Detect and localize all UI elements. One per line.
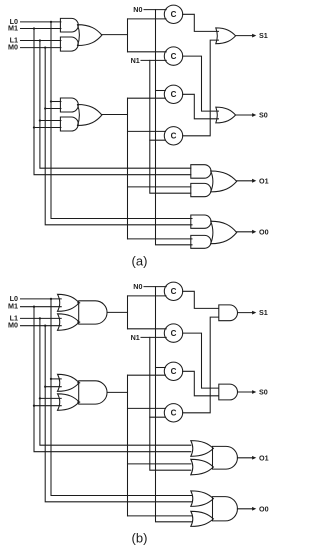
input label N1 (a) [131, 56, 140, 65]
gate cluster2-out (b) [79, 381, 107, 404]
input label M1 (a) [8, 23, 18, 32]
svg-text:C: C [171, 367, 177, 376]
gate S1 output (a) [216, 28, 236, 44]
svg-text:M0: M0 [8, 43, 18, 52]
gate cluster1-B (a) [60, 37, 78, 51]
input label N0 (b) [133, 282, 142, 291]
svg-text:S0: S0 [259, 111, 268, 120]
gate O0-B (b) [191, 511, 214, 526]
wire+arrow S1 (b) [238, 311, 257, 315]
svg-text:M0: M0 [8, 321, 18, 330]
gate O1-A (b) [191, 441, 214, 457]
gate O0-B (a) [191, 235, 211, 248]
wire L1 vertical branch (b) [39, 317, 191, 445]
input label L1 (b) [10, 313, 18, 322]
wire C3 output (a) [183, 94, 219, 119]
input label L0 (b) [10, 294, 18, 303]
wire cluster1 output to splitter (b) [107, 311, 128, 313]
C-element U1b [164, 282, 182, 300]
wire N1 vertical branch (b) [150, 337, 191, 470]
wire C1 output (b) [183, 291, 219, 308]
wire splitter2 bottom branch to O0 gate (b) [128, 515, 193, 517]
gate cluster1-A (b) [58, 294, 80, 311]
wire splitter2 branch to C4 (b) [128, 407, 166, 409]
wire splitter1 bottom branch to C2 (b) [128, 328, 167, 330]
svg-text:O0: O0 [259, 504, 269, 513]
output label O0 (b) [259, 504, 269, 513]
svg-text:C: C [171, 90, 177, 99]
wire C3 output (b) [183, 371, 219, 396]
wire N0 vertical branch (b) [156, 287, 193, 522]
wire M0 vertical branch (a) [44, 46, 192, 224]
wire+arrow O0 (b) [237, 507, 256, 511]
wire splitter2 branch to C4 (a) [128, 130, 166, 132]
gate S0 output (b) [219, 384, 238, 400]
wire+arrow S0 (b) [238, 390, 257, 394]
wire+arrow S1 (a) [236, 34, 257, 38]
gate cluster2-A (b) [58, 374, 80, 391]
wire splitter2 top branch to C3 (b) [128, 374, 166, 376]
wire splitter2 stub to O1 gate (a) [128, 186, 191, 188]
wire+arrow O0 (a) [237, 230, 257, 234]
wire N1 to C2 (b) [141, 336, 166, 338]
svg-text:N0: N0 [133, 282, 142, 291]
wire splitter2 top branch to C3 (a) [128, 97, 166, 99]
svg-text:S0: S0 [259, 388, 268, 397]
wire C4 output (b) [183, 317, 219, 413]
svg-text:C: C [171, 287, 177, 296]
wire L0 input rail (b) [21, 298, 62, 300]
wire M1 vertical branch (b) [33, 306, 191, 452]
input label M0 (b) [8, 321, 18, 330]
svg-text:N0: N0 [133, 5, 142, 14]
output label O1 (b) [259, 453, 269, 462]
gate cluster2-B (b) [58, 394, 80, 411]
gate O0-out (b) [213, 497, 238, 521]
gate cluster2-B (a) [60, 117, 78, 131]
input label M1 (b) [8, 302, 18, 311]
gate O0-A (b) [191, 491, 214, 507]
svg-text:S1: S1 [259, 31, 268, 40]
output label S0 (b) [259, 388, 268, 397]
caption (b) [132, 530, 148, 545]
gate O0-out (a) [211, 221, 237, 244]
wire L0 stub to lower cluster (a) [50, 100, 61, 102]
wire splitter1 bottom branch to C2 (a) [128, 51, 167, 53]
wire+arrow O1 (a) [237, 179, 257, 183]
C-element U4a [164, 127, 182, 145]
wire N1 vertical branch (a) [150, 60, 191, 193]
wire splitter1 vertical (b) [127, 296, 129, 329]
wire splitter2 bottom branch to O0 gate (a) [128, 238, 193, 240]
gate O1-A (a) [191, 165, 211, 179]
input label N1 (b) [131, 333, 140, 342]
wire splitter1 top branch to C1 (a) [128, 18, 167, 20]
C-element U3b [164, 362, 182, 380]
wire cluster1 internal joins (b) [78, 303, 80, 322]
wire L0 stub to lower cluster (b) [50, 378, 61, 380]
svg-text:C: C [171, 132, 177, 141]
output label O0 (a) [259, 227, 269, 236]
output label S1 (b) [259, 308, 268, 317]
wire splitter2 stub to O1 gate (b) [128, 463, 191, 465]
gate O1-out (b) [213, 446, 238, 469]
wire splitter1 vertical (a) [127, 19, 129, 52]
svg-text:N1: N1 [131, 56, 140, 65]
svg-text:N1: N1 [131, 333, 140, 342]
svg-text:C: C [171, 329, 177, 338]
wire N0 stub to C3 (b) [156, 367, 166, 369]
wire splitter2 vertical (b) [127, 375, 129, 516]
wire M0 input rail (b) [21, 325, 62, 327]
wire N0 to C1 (b) [144, 286, 166, 288]
svg-text:O0: O0 [259, 227, 269, 236]
wire M0 input rail (a) [21, 47, 61, 49]
output label S1 (a) [259, 31, 268, 40]
wire M1 stub to lower cluster (b) [33, 405, 61, 407]
wire N1 stub to C4 (a) [150, 139, 166, 141]
wire L0 input rail (a) [21, 21, 61, 23]
svg-text:C: C [171, 10, 177, 19]
wire splitter2 vertical (a) [127, 98, 129, 239]
wire cluster2 output to splitter (b) [107, 391, 128, 393]
svg-text:M1: M1 [8, 23, 18, 32]
wire M0 stub to lower cluster (a) [44, 107, 61, 109]
gate cluster1-B (b) [58, 314, 80, 331]
wire cluster1 output to splitter (a) [102, 34, 128, 36]
caption (a) [132, 253, 148, 268]
wire N0 to C1 (a) [144, 9, 166, 11]
wire splitter1 top branch to C1 (b) [128, 295, 167, 297]
input label L1 (a) [10, 35, 18, 44]
gate cluster1-out (b) [79, 301, 107, 324]
wire L0 vertical branch (b) [50, 298, 192, 496]
gate cluster2-A (a) [60, 98, 78, 112]
wire L1 vertical branch (a) [39, 39, 191, 168]
wire C4 output (a) [183, 40, 219, 136]
svg-text:C: C [171, 52, 177, 61]
gate S1 output (b) [219, 305, 238, 321]
output label O1 (a) [259, 176, 269, 185]
wire cluster2 output to splitter (a) [102, 114, 128, 116]
wire L1 input rail (a) [21, 40, 61, 42]
C-element U4b [164, 404, 182, 422]
gate cluster1-out (a) [78, 25, 102, 46]
svg-text:C: C [171, 409, 177, 418]
wire L0 vertical branch (a) [50, 21, 192, 219]
svg-text:(a): (a) [132, 253, 148, 268]
wire C2 output (a) [183, 56, 219, 111]
wire+arrow S0 (a) [236, 113, 257, 117]
wire M1 input rail (a) [21, 28, 61, 30]
C-element U1a [164, 5, 182, 23]
svg-text:M1: M1 [8, 302, 18, 311]
input label L0 (a) [10, 17, 18, 26]
svg-text:O1: O1 [259, 176, 269, 185]
gate O0-A (a) [191, 215, 211, 228]
svg-text:(b): (b) [132, 530, 148, 545]
wire N0 vertical branch (a) [156, 10, 193, 245]
C-element U2a [164, 47, 182, 65]
wire L1 input rail (b) [21, 317, 62, 319]
svg-text:S1: S1 [259, 308, 268, 317]
wire M1 input rail (b) [21, 306, 62, 308]
wire L1 stub to lower cluster (b) [39, 397, 61, 399]
C-element U2b [164, 324, 182, 342]
gate O1-B (b) [191, 459, 214, 475]
gate O1-out (a) [211, 171, 237, 192]
wire L1 stub to lower cluster (a) [39, 119, 61, 121]
input label N0 (a) [133, 5, 142, 14]
wire C1 output (a) [183, 14, 219, 31]
wire N1 stub to C4 (b) [150, 416, 166, 418]
wire N0 stub to C3 (a) [156, 90, 166, 92]
wire M0 stub to lower cluster (b) [44, 386, 61, 388]
wire cluster2 internal joins (b) [78, 383, 80, 402]
input label M0 (a) [8, 43, 18, 52]
wire+arrow O1 (b) [237, 456, 256, 460]
wire M0 vertical branch (b) [44, 325, 192, 502]
gate O1-B (a) [191, 183, 211, 196]
wire N1 to C2 (a) [141, 59, 166, 61]
gate S0 output (a) [216, 107, 236, 123]
C-element U3a [164, 85, 182, 103]
gate cluster1-A (a) [60, 18, 78, 32]
wire M1 stub to lower cluster (a) [33, 126, 61, 128]
gate cluster2-out (a) [78, 105, 102, 126]
output label S0 (a) [259, 111, 268, 120]
wire M1 vertical branch (a) [33, 27, 191, 174]
svg-text:O1: O1 [259, 453, 269, 462]
wire C2 output (b) [183, 333, 219, 388]
